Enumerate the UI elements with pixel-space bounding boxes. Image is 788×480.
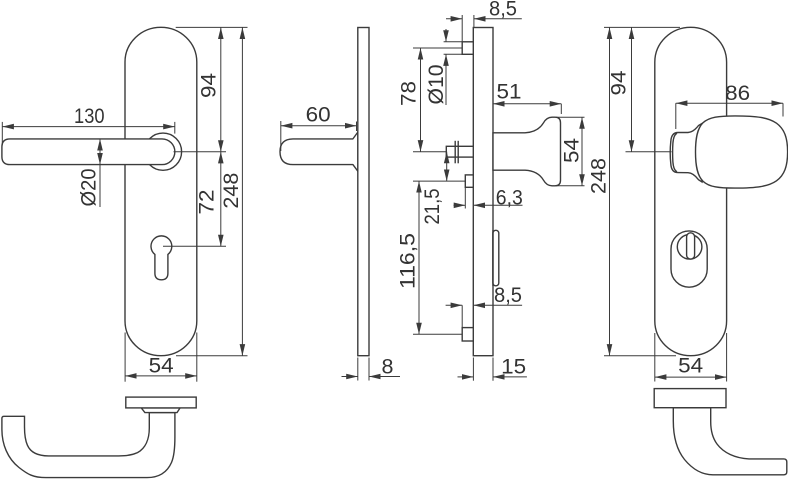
collar inner arc	[673, 133, 677, 172]
dim 6,3 arrows	[454, 204, 466, 206]
dim 8,5 lower extension	[461, 305, 463, 327]
view4 top extension	[604, 26, 680, 28]
dim 60 extension	[280, 121, 282, 151]
dim 8,5 top extensions	[461, 15, 463, 42]
svg-text:51: 51	[497, 80, 522, 104]
exterior plate (view 4)	[655, 27, 727, 355]
dim 94 line (view1)	[220, 27, 222, 151]
dim 8 extension lines	[357, 358, 359, 381]
dim 130 line	[2, 126, 175, 128]
dim 8,5 lower arrows	[446, 304, 463, 306]
dim 130 extension lines	[1, 122, 3, 145]
bottom-right handle profile tube	[673, 408, 787, 475]
interior plate (view 1)	[125, 27, 197, 355]
dim 54 view4 line	[655, 376, 727, 378]
cylinder ring	[677, 235, 702, 260]
bottom-left rose trapezoid	[141, 408, 180, 413]
dim 8 arrows	[342, 376, 358, 378]
dim O10 down arrow	[445, 29, 447, 42]
svg-text:86: 86	[725, 81, 750, 105]
dim 15 extensions	[472, 358, 474, 381]
dim 54 view4 extensions	[654, 333, 656, 382]
knob collar (view 4)	[670, 124, 702, 183]
lower pin centre extension	[413, 333, 462, 335]
cylinder slot	[687, 233, 695, 259]
svg-text:8: 8	[382, 355, 394, 379]
dim 86 extensions	[675, 103, 677, 129]
dim 8,5 top arrows	[446, 18, 462, 20]
lower fixing pin (view 3)	[462, 328, 473, 341]
svg-text:78: 78	[397, 81, 421, 106]
svg-text:54: 54	[678, 353, 703, 377]
dim O20 tail	[99, 165, 101, 207]
top fixing pin (view 3)	[462, 42, 473, 55]
lever centre extension	[174, 151, 227, 153]
svg-text:Ø10: Ø10	[424, 64, 448, 104]
spindle hub (view 3)	[446, 146, 473, 157]
dim 51 extension	[560, 104, 562, 114]
security cylinder escutcheon outer (view 4)	[671, 231, 707, 287]
svg-text:248: 248	[219, 173, 243, 209]
exterior plate side view (view 3)	[473, 28, 493, 356]
handle stub with flare (view 2)	[280, 132, 358, 172]
svg-text:15: 15	[501, 355, 526, 379]
svg-text:72: 72	[195, 190, 219, 215]
fixed knob front view (view 4)	[696, 116, 788, 188]
knob side profile (view 3)	[493, 117, 561, 186]
spindle centre extension	[413, 151, 446, 153]
view1 bottom extension	[176, 355, 248, 357]
knob top extension (54)	[556, 116, 585, 118]
svg-text:60: 60	[306, 103, 331, 127]
dim 51 line	[493, 103, 561, 105]
dim 116,5 line	[418, 181, 420, 334]
svg-text:8,5: 8,5	[494, 283, 522, 307]
svg-text:54: 54	[560, 138, 584, 163]
dim 54 knob line	[581, 117, 583, 186]
svg-text:Ø20: Ø20	[77, 168, 101, 206]
plate slab (view 2)	[358, 28, 369, 356]
dim 60 line	[281, 125, 357, 127]
dim O20 arrows	[99, 139, 101, 165]
dim 54 view1 extension lines	[124, 333, 126, 382]
view1 top extension	[176, 26, 248, 28]
locating tab (view 3)	[465, 175, 473, 187]
svg-text:130: 130	[74, 104, 105, 128]
svg-text:54: 54	[149, 354, 174, 378]
svg-text:248: 248	[587, 158, 611, 194]
dim 248 line (view1)	[241, 27, 243, 355]
view4 bottom extension	[604, 355, 676, 357]
tab centre extension	[413, 180, 465, 182]
pin top extension	[444, 41, 463, 43]
dim 78 line	[420, 48, 422, 152]
knob centre extension (view4)	[626, 151, 672, 153]
svg-text:6,3: 6,3	[496, 186, 523, 210]
bottom-right plate bar	[654, 389, 726, 408]
dim 94 line (view4)	[631, 27, 633, 151]
knob bottom extension (54)	[556, 185, 585, 187]
dim 6,3 extension	[464, 187, 466, 208]
svg-text:116,5: 116,5	[396, 233, 420, 289]
lever handle (view 1)	[2, 139, 175, 165]
bottom-left plate bar	[126, 397, 196, 408]
svg-text:94: 94	[607, 70, 631, 95]
pin bottom extension	[444, 53, 463, 55]
dim 86 line	[676, 102, 783, 104]
bottom-left handle profile tube	[2, 413, 175, 478]
euro profile keyhole	[151, 236, 172, 280]
dim 72 line	[220, 152, 222, 247]
dim O10 up arrow leader	[445, 54, 447, 105]
svg-text:94: 94	[197, 73, 221, 98]
spindle flange lines	[454, 141, 456, 164]
dim 248 line (view4)	[609, 27, 611, 355]
pin centre extension (78 top)	[413, 47, 462, 49]
rose behind lever	[144, 133, 181, 170]
dim 15 arrows	[458, 376, 474, 378]
keyhole centre extension	[163, 245, 226, 247]
dim 21,5 line	[446, 152, 448, 181]
cylinder cover bump side view (view 3)	[493, 230, 499, 285]
dim 54 view1 line	[125, 375, 197, 377]
svg-text:8,5: 8,5	[489, 0, 517, 21]
svg-text:21,5: 21,5	[420, 188, 444, 224]
